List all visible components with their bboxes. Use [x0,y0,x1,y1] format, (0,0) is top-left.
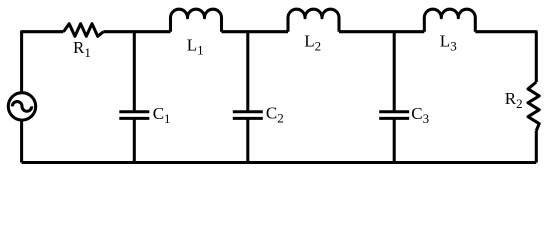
node C2 branch wire lower [246,118,249,162]
node C1 branch wire lower [133,118,136,162]
wire right-bottom segment [535,131,538,163]
resistor R2 [528,82,539,131]
inductor L3 [424,9,475,32]
svg-text:C1: C1 [153,104,171,126]
svg-text:L1: L1 [187,35,204,57]
svg-text:L2: L2 [304,32,321,54]
svg-text:L3: L3 [440,32,457,54]
node C1 branch wire upper [133,32,136,112]
node C3 branch wire lower [393,118,396,162]
svg-text:R2: R2 [505,89,523,111]
node C2 branch wire upper [246,32,249,112]
wire L1 to L2 (through node C2) [222,30,289,33]
inductor L1 [171,9,222,32]
inductor L2 [288,9,339,32]
svg-text:C3: C3 [411,104,429,126]
AC source V1 [8,93,35,120]
wire top-left segment [22,32,64,94]
capacitor C3 [379,110,409,113]
resistor R1 [64,24,104,37]
wire bottom [22,161,537,164]
wire left-bottom segment [20,119,23,162]
wire L2 to L3 (through node C3) [339,30,424,33]
capacitor C2 [233,110,263,113]
node C3 branch wire upper [393,32,396,112]
svg-text:C2: C2 [266,104,284,126]
wire R1 to L1 (through node C1) [103,30,170,33]
svg-text:R1: R1 [73,38,91,60]
capacitor C1 [119,110,149,113]
wire L3 to top-right corner [475,32,536,82]
